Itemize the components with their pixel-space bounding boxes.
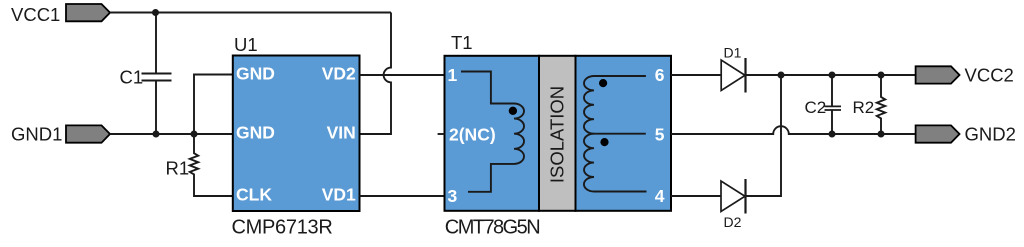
capacitor C2 bbox=[831, 75, 833, 134]
secondary winding lower polarity dot bbox=[600, 138, 608, 146]
svg-text:5: 5 bbox=[655, 125, 665, 145]
svg-text:GND2: GND2 bbox=[965, 124, 1016, 145]
svg-text:C1: C1 bbox=[120, 67, 144, 88]
svg-text:3: 3 bbox=[448, 186, 458, 206]
T1 secondary box bbox=[576, 56, 672, 211]
secondary winding upper polarity dot bbox=[599, 79, 607, 87]
primary winding bbox=[461, 72, 524, 192]
svg-text:6: 6 bbox=[655, 65, 665, 85]
wire D1 to junction bbox=[746, 74, 916, 76]
wire VCC1 down to VIN with hop over VD2 wire bbox=[360, 13, 392, 135]
wire pin5 to GND2 with hop bbox=[671, 126, 916, 134]
T1 primary box bbox=[445, 56, 540, 211]
connector GND1 bbox=[66, 125, 110, 142]
connector VCC1 bbox=[66, 4, 110, 21]
diode D2 bbox=[721, 181, 745, 212]
svg-text:1: 1 bbox=[448, 65, 458, 85]
svg-text:T1: T1 bbox=[451, 32, 473, 53]
secondary winding upper bbox=[584, 76, 646, 134]
wire VCC1 to corner bbox=[110, 12, 391, 14]
svg-text:CLK: CLK bbox=[236, 185, 272, 205]
junction dot C1 bottom bbox=[153, 131, 160, 138]
T1 isolation barrier bbox=[539, 56, 576, 211]
junction dot R2 bottom bbox=[878, 131, 885, 138]
svg-text:GND1: GND1 bbox=[11, 124, 62, 145]
junction dot C2 top bbox=[829, 72, 836, 79]
junction dot VCC1/C1 bbox=[152, 9, 159, 16]
svg-text:GND: GND bbox=[236, 64, 275, 84]
svg-text:U1: U1 bbox=[234, 34, 258, 55]
resistor R1 bbox=[190, 134, 233, 196]
connector GND2 bbox=[916, 125, 960, 142]
T1 pin 2 NC stub bbox=[438, 133, 445, 135]
svg-text:D2: D2 bbox=[724, 214, 742, 230]
svg-text:VCC1: VCC1 bbox=[11, 4, 60, 25]
svg-text:4: 4 bbox=[655, 186, 665, 206]
svg-text:R1: R1 bbox=[166, 158, 190, 179]
svg-text:ISOLATION: ISOLATION bbox=[547, 86, 568, 183]
connector VCC2 bbox=[916, 66, 960, 83]
diode D1 bbox=[721, 60, 745, 91]
wire VD1 to T1 pin3 bbox=[360, 195, 445, 197]
svg-text:VCC2: VCC2 bbox=[965, 65, 1014, 86]
resistor R2 bbox=[877, 75, 885, 134]
svg-text:CMP6713R: CMP6713R bbox=[232, 217, 333, 239]
wire VD2 to T1 pin1 bbox=[360, 74, 445, 76]
wire up to U1 top GND pin bbox=[194, 75, 233, 135]
svg-text:R2: R2 bbox=[853, 98, 875, 117]
primary polarity dot bbox=[509, 107, 517, 115]
svg-text:CMT78G5N: CMT78G5N bbox=[445, 217, 539, 239]
svg-text:VD2: VD2 bbox=[322, 64, 356, 84]
capacitor C1 bbox=[155, 13, 157, 135]
svg-text:2(NC): 2(NC) bbox=[449, 125, 496, 145]
svg-text:GND: GND bbox=[236, 123, 275, 143]
svg-text:VIN: VIN bbox=[327, 123, 356, 143]
IC U1 box bbox=[233, 56, 360, 212]
junction dot diode outputs bbox=[778, 72, 785, 79]
wire pin4 to D2 bbox=[671, 195, 721, 197]
junction dot C2 bottom bbox=[829, 131, 836, 138]
svg-text:VD1: VD1 bbox=[322, 185, 356, 205]
junction dot R2 top bbox=[878, 72, 885, 79]
wire GND1 to U1 GND pin bbox=[110, 133, 233, 135]
svg-text:C2: C2 bbox=[805, 98, 827, 117]
wire D2 up to VCC2 line bbox=[746, 75, 782, 196]
secondary winding lower bbox=[584, 134, 647, 192]
junction dot R1 top bbox=[191, 131, 198, 138]
svg-text:D1: D1 bbox=[724, 45, 742, 61]
wire pin6 to D1 bbox=[671, 74, 721, 76]
